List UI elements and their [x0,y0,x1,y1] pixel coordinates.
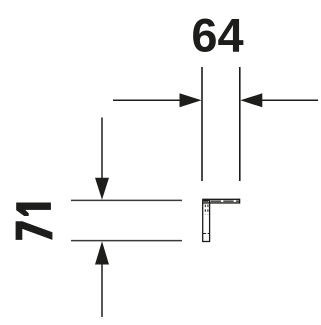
extension line right (64 dim) [239,67,241,181]
dimension line bottom segment (71 dim) [101,259,103,317]
arrowhead pointing right (64 dim) [180,93,202,107]
arrowhead pointing left (64 dim) [240,93,262,107]
extension line upper (71 dim) [71,199,182,201]
dimension line left segment (64 dim) [113,99,184,101]
arrowhead pointing down (71 dim) [95,178,109,200]
extension line lower (71 dim) [71,240,182,242]
hidden dashed line near leg bottom [203,233,210,235]
arrowhead pointing up (71 dim) [95,241,109,264]
svg-text:64: 64 [191,9,243,62]
dimension label 71 (rotated): digit 1 [16,203,51,217]
dimension line top segment (71 dim) [101,118,103,183]
bracket bar right end cap [239,199,241,204]
hidden hole dashed line right (in leg) [207,205,209,215]
dimension label 71 (rotated): digit 7 [16,221,53,240]
bracket bar bottom edge [202,202,240,204]
bracket vertical leg outline [203,200,210,241]
bracket horizontal bar (top flange): top edge [202,198,240,200]
hidden hole dashed line left (in leg) [204,205,206,215]
bracket bar dashed centerline [204,200,240,202]
dimension line right segment (64 dim) [258,99,318,101]
extension line left (64 dim) [201,67,203,181]
